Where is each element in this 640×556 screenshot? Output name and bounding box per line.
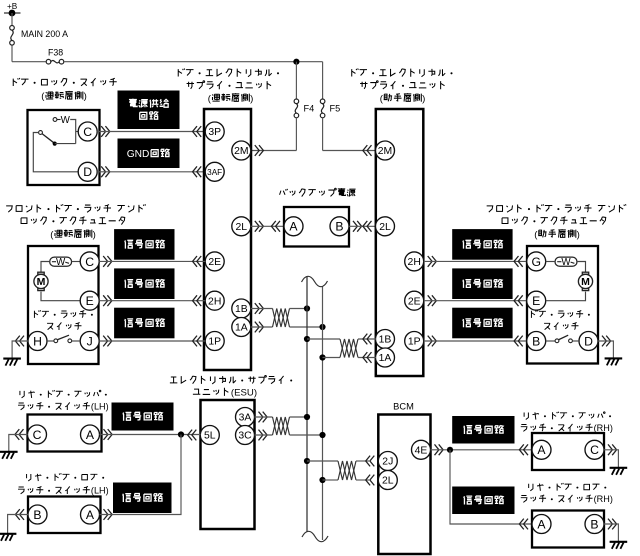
wire 4E branch down (450, 450, 532, 524)
svg-text:2L: 2L (379, 222, 391, 233)
pin B actuator passenger (527, 332, 546, 351)
pin B LH lower (28, 505, 47, 524)
circuit box signal LH upper (112, 403, 173, 430)
svg-text:): ) (93, 229, 96, 240)
pin C RH upper (585, 440, 604, 459)
wire +B drop (11, 13, 13, 25)
connector arrows 2M driver (255, 145, 264, 156)
connector arrows C LH (15, 429, 24, 440)
wire twist to trunk 3A (290, 416, 308, 418)
junction 1B trunk (304, 305, 310, 311)
pin 2E driver (205, 252, 224, 271)
pin 3C (236, 426, 255, 445)
connector arrows H act out (15, 336, 24, 347)
connector arrows 3C out (259, 430, 268, 441)
svg-text:W: W (561, 257, 571, 268)
label door lock switch (13, 78, 116, 102)
connector arrows A RH lower in (519, 519, 528, 530)
wire to C internal (76, 131, 79, 133)
pin B backup (330, 217, 349, 236)
label door latch switch passenger (531, 310, 589, 330)
wire F4 drop upper (295, 62, 297, 99)
connector arrows 2L driver out (255, 221, 264, 232)
pin 2M driver (232, 141, 251, 160)
latch switch driver (47, 335, 80, 342)
wire res to motor (41, 262, 50, 273)
pin C LH upper (28, 425, 47, 444)
wire trunk to twist pass 2 (323, 357, 341, 359)
wire D to 3AF (97, 171, 205, 173)
wire C to 3P (97, 131, 205, 133)
svg-text:J: J (87, 334, 93, 348)
pin A RH lower (532, 515, 551, 534)
pin A LH lower (81, 505, 100, 524)
pin 1B driver (232, 299, 251, 318)
svg-text:2E: 2E (408, 296, 421, 307)
resistor W passenger act (555, 257, 577, 268)
connector arrows 2L BCM in (366, 475, 375, 486)
wire B RH to ground (604, 524, 618, 541)
motor M passenger (578, 272, 592, 290)
svg-text:(LH): (LH) (91, 486, 109, 496)
svg-text:H: H (33, 334, 42, 348)
fusible link MAIN 200 A (10, 26, 68, 46)
svg-text:3C: 3C (238, 431, 252, 442)
svg-text:W: W (56, 257, 66, 268)
connector arrows B pass in (514, 336, 523, 347)
connector arrows A LH upper out (104, 429, 113, 440)
junction top-F4 (293, 59, 299, 65)
svg-text:4E: 4E (415, 446, 428, 457)
svg-text:): ) (422, 93, 425, 104)
pin 2L BCM (378, 471, 397, 490)
svg-text:): ) (84, 91, 87, 102)
pin 4E (412, 440, 431, 459)
wire D to ground (598, 341, 613, 358)
svg-text:G: G (531, 255, 540, 269)
pin E actuator driver (80, 291, 99, 310)
svg-text:BCM: BCM (393, 401, 414, 411)
circuit box signal 5 (453, 269, 512, 299)
connector arrows B RH out (608, 519, 617, 530)
pin E actuator passenger (527, 291, 546, 310)
label backup power (280, 188, 356, 196)
svg-text:A: A (537, 517, 546, 531)
break symbol top (302, 276, 328, 286)
circuit box signal 2 (115, 269, 174, 299)
label LH upper (18, 390, 109, 411)
junction 1A trunk (319, 324, 325, 330)
wire C RH to ground (604, 450, 618, 467)
wire trunk to twist BCM 2 (323, 479, 339, 481)
wire res to motor pass (577, 262, 586, 273)
connector arrows A LH lower out (104, 509, 113, 520)
motor M driver (34, 272, 48, 290)
wire trunk to twist pass (307, 338, 340, 340)
svg-text:M: M (37, 276, 46, 288)
connector arrows A RH upper in (519, 444, 528, 455)
svg-text:2L: 2L (382, 476, 394, 487)
svg-text:C: C (83, 125, 92, 139)
label front actuator passenger (487, 204, 626, 240)
fuse F38 (46, 48, 64, 65)
ground RH lower (610, 542, 628, 549)
pin 2L driver (232, 217, 251, 236)
wire twist to 1A pass (358, 357, 376, 359)
svg-text:5L: 5L (204, 431, 216, 442)
svg-text:1B: 1B (379, 335, 392, 346)
svg-text:2H: 2H (208, 296, 221, 307)
pin 3AF (205, 162, 224, 181)
svg-text:C: C (33, 428, 42, 442)
connector arrows B backup out (353, 221, 362, 232)
pin J actuator driver (80, 332, 99, 351)
pin 2H passenger (405, 252, 424, 271)
pin 2J (378, 452, 397, 471)
label driver ESU (178, 68, 279, 104)
wire twist to trunk 3C (290, 434, 323, 436)
svg-text:3A: 3A (239, 413, 252, 424)
connector arrows C out (101, 126, 110, 137)
connector arrows 3P in (193, 126, 202, 137)
circuit box GND (118, 139, 179, 168)
label ESU (170, 375, 292, 398)
svg-text:E: E (86, 294, 94, 308)
label BCM (393, 401, 414, 411)
wire E act to 2H (99, 300, 205, 302)
pin 1A driver (232, 318, 251, 337)
connector arrows J act out (103, 336, 112, 347)
svg-text:1P: 1P (408, 337, 421, 348)
label RH upper (521, 412, 613, 433)
label passenger ESU (352, 68, 453, 104)
wire 1B to twist (251, 308, 273, 310)
svg-text:D: D (584, 334, 593, 348)
svg-text:(RH): (RH) (594, 494, 613, 504)
ground RH upper (610, 468, 628, 475)
svg-text:2L: 2L (236, 222, 248, 233)
circuit box signal 3 (115, 308, 174, 338)
twisted pair passenger (340, 339, 358, 358)
connector arrows 2M passenger in (363, 145, 372, 156)
wire 3C to twist (255, 434, 273, 436)
circuit box signal LH lower (114, 483, 172, 513)
connector arrows 1P in (193, 336, 202, 347)
wire top bus (64, 61, 323, 63)
svg-text:1A: 1A (379, 353, 392, 364)
resistor W door-lock (53, 115, 76, 144)
svg-text:A: A (289, 220, 298, 234)
junction 2L trunk (319, 477, 325, 483)
wire twist to 1B pass (358, 338, 376, 340)
box BCM (378, 415, 430, 555)
pin G actuator passenger (527, 252, 546, 271)
wire B to 2L passenger (349, 225, 376, 227)
wire 1A to twist (251, 326, 273, 328)
connector arrows C act out (103, 256, 112, 267)
connector arrows D pass out (602, 336, 611, 347)
node +B (4, 2, 21, 16)
svg-text:F5: F5 (330, 104, 341, 114)
wire 3A to twist (255, 416, 273, 418)
wire C LH to ground (9, 435, 28, 452)
connector arrows 3A out (259, 412, 268, 423)
connector arrows 1A passenger in (363, 352, 372, 363)
wire 4E to A RH upper (431, 449, 533, 451)
pin D actuator passenger (579, 332, 598, 351)
junction 1B passenger trunk (304, 336, 310, 342)
pin 3A (236, 408, 255, 427)
wire 2H to G (424, 260, 527, 262)
wire A LH upper to 5L (100, 434, 201, 436)
wire F4 to 2M driver (251, 118, 296, 150)
wire trunk to twist BCM (307, 460, 338, 462)
pin 2H driver (205, 291, 224, 310)
junction 4E (447, 447, 453, 453)
svg-text:MAIN 200 A: MAIN 200 A (21, 29, 68, 39)
pin A RH upper (532, 440, 551, 459)
label front actuator driver (6, 204, 145, 240)
pin B RH lower (585, 515, 604, 534)
svg-text:2E: 2E (208, 257, 221, 268)
svg-text:(LH): (LH) (91, 402, 109, 412)
junction 3A trunk (304, 414, 310, 420)
connector arrows 3AF in (193, 166, 202, 177)
wire 2E to E pass (424, 300, 527, 302)
wire pivot to D (33, 133, 78, 172)
ground LH lower (0, 534, 16, 541)
junction 1A passenger trunk (319, 354, 325, 360)
ground passenger actuator (605, 358, 623, 365)
wire B LH to ground (8, 515, 28, 534)
box RH lower switch (532, 511, 604, 548)
circuit box signal RH upper (453, 417, 514, 444)
svg-text:B: B (532, 334, 540, 348)
box front actuator passenger (527, 246, 598, 364)
svg-text:C: C (85, 255, 94, 269)
svg-text:(RH): (RH) (594, 423, 613, 433)
wire J act to 1P (99, 340, 205, 342)
pin 1B passenger (376, 330, 395, 349)
svg-text:): ) (250, 93, 253, 104)
wire main feed (12, 45, 46, 61)
pin 1P driver (205, 332, 224, 351)
circuit box signal 4 (453, 230, 512, 260)
connector arrows 1P passenger out (428, 336, 437, 347)
wire F5 to 2M passenger (323, 118, 376, 150)
connector arrows D out (101, 166, 110, 177)
pin 2M passenger (376, 141, 395, 160)
svg-text:M: M (581, 276, 590, 288)
connector arrows C RH out (608, 444, 617, 455)
pin 2L passenger (376, 217, 395, 236)
svg-text:3P: 3P (208, 127, 221, 138)
fuse F5 (320, 99, 340, 118)
svg-text:F38: F38 (48, 48, 63, 58)
connector arrows 2L passenger in (363, 221, 372, 232)
svg-text:1B: 1B (235, 304, 248, 315)
junction 2J trunk (304, 458, 310, 464)
box RH upper switch (532, 433, 604, 470)
svg-text:1A: 1A (235, 323, 248, 334)
svg-text:2M: 2M (378, 146, 392, 157)
trunk left line (306, 277, 308, 532)
wire C act to 2E (99, 260, 205, 262)
connector arrows G in (514, 256, 523, 267)
svg-text:B: B (335, 220, 343, 234)
svg-text:1P: 1P (208, 337, 221, 348)
wire res to C act (72, 261, 81, 263)
trunk right line (322, 286, 324, 540)
wire A LH lower to junction (100, 435, 182, 515)
wire F5 drop upper (322, 62, 324, 99)
pin C actuator driver (80, 252, 99, 271)
box front actuator driver (28, 246, 99, 364)
circuit box signal RH lower (453, 487, 514, 514)
pin 1A passenger (376, 348, 395, 367)
svg-text:): ) (577, 229, 580, 240)
svg-text:2M: 2M (234, 146, 248, 157)
break symbol bottom (302, 531, 328, 541)
connector arrows B LH (15, 509, 24, 520)
wire twist to 2L BCM (356, 479, 369, 481)
wire twist to 2J (356, 460, 369, 462)
svg-text:D: D (83, 165, 92, 179)
svg-text:F4: F4 (304, 104, 315, 114)
svg-text:2H: 2H (408, 257, 421, 268)
pin H actuator driver (28, 332, 47, 351)
connector arrows 1B passenger in (363, 334, 372, 345)
svg-text:W: W (61, 115, 71, 126)
box door lock switch (28, 110, 100, 185)
wire H to ground (12, 341, 28, 358)
svg-text:B: B (33, 508, 41, 522)
ground LH upper (0, 452, 18, 459)
connector arrows 4E out (435, 444, 444, 455)
circuit box power supply (118, 91, 179, 129)
svg-text:2J: 2J (382, 457, 393, 468)
box driver ESU (204, 109, 251, 370)
wire motor to E pass (546, 292, 586, 301)
wire twist to left trunk (290, 308, 308, 310)
pin 2E passenger (405, 291, 424, 310)
connector arrows 2E in (193, 256, 202, 267)
svg-text:E: E (532, 294, 540, 308)
svg-text:3AF: 3AF (207, 168, 222, 177)
box LH lower switch (28, 497, 101, 534)
twisted pair driver (273, 309, 290, 328)
connector arrows E act out (103, 295, 112, 306)
connector arrows 1A driver out (255, 322, 264, 333)
pin A backup (284, 217, 303, 236)
pin 3P (205, 122, 224, 141)
pin C door-lock (78, 122, 97, 141)
wire twist to right trunk (290, 326, 323, 328)
svg-text:GND: GND (127, 149, 150, 160)
label LH lower (18, 473, 109, 495)
connector arrows 1B driver out (255, 303, 264, 314)
connector arrows 2J in (366, 456, 375, 467)
resistor W driver act (50, 257, 72, 268)
connector arrows E pass in (514, 295, 523, 306)
twisted pair ESU (273, 417, 290, 435)
latch switch passenger (546, 335, 579, 342)
wire motor to E (41, 292, 80, 301)
fuse F4 (294, 99, 314, 118)
box ESU (201, 400, 255, 529)
box passenger ESU (376, 109, 424, 376)
wire G to res (546, 261, 555, 263)
connector arrows 2H passenger out (428, 256, 437, 267)
junction LH (178, 431, 184, 437)
label RH lower (521, 483, 613, 504)
pin D door-lock (78, 162, 97, 181)
ground driver actuator (3, 359, 21, 366)
switch blade door-lock (39, 131, 76, 146)
connector arrows 5L in (188, 430, 197, 441)
svg-text:A: A (86, 428, 95, 442)
wire 2L to A (251, 225, 284, 227)
connector arrows 2E passenger out (428, 295, 437, 306)
connector arrows A backup in (271, 221, 280, 232)
box backup power (284, 207, 349, 247)
pin 1P passenger (405, 332, 424, 351)
svg-text:(ESU): (ESU) (231, 387, 257, 398)
svg-text:A: A (86, 508, 95, 522)
label door latch switch driver (34, 310, 92, 330)
box LH upper switch (28, 415, 102, 452)
circuit box signal 6 (453, 308, 512, 338)
pin 5L (200, 426, 219, 445)
circuit box signal 1 (115, 230, 174, 260)
svg-text:C: C (590, 443, 599, 457)
svg-text:A: A (537, 443, 546, 457)
twisted pair BCM (338, 461, 356, 480)
wire 1P to B pass (424, 340, 527, 342)
svg-text:B: B (590, 517, 598, 531)
junction 3C trunk (319, 432, 325, 438)
connector arrows 2H in (193, 295, 202, 306)
pin A LH upper (81, 425, 100, 444)
